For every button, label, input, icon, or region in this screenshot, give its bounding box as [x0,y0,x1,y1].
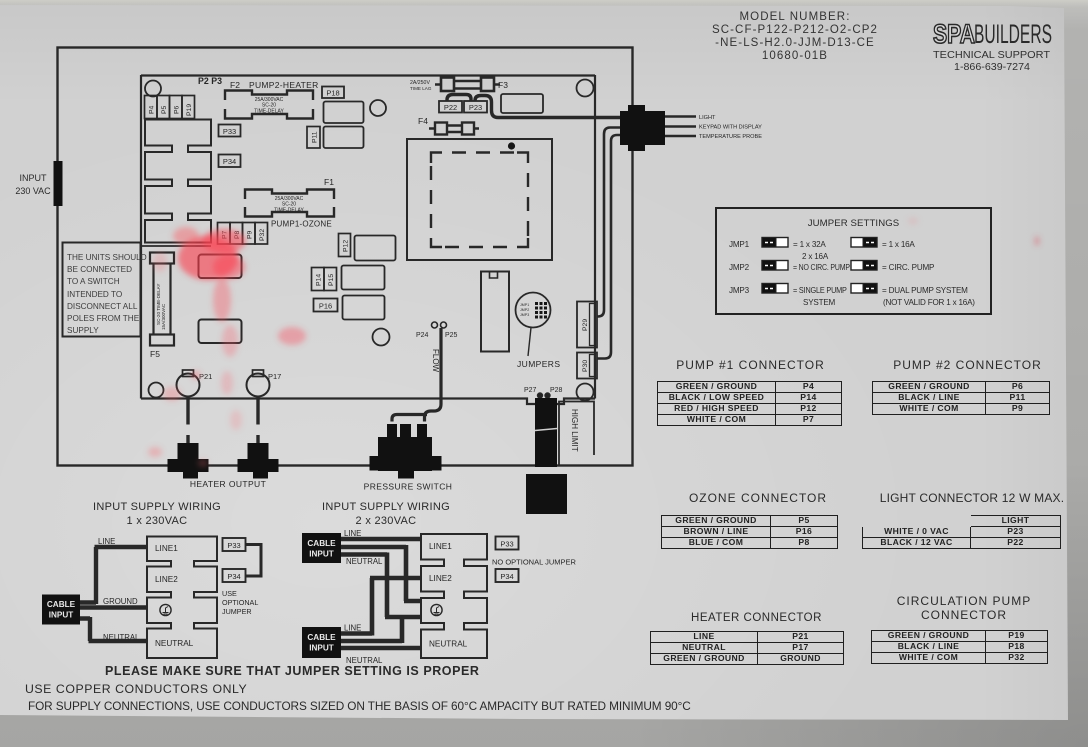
svg-text:P22: P22 [444,103,457,112]
wire top line [341,537,421,542]
JMP2 icon left-set [762,261,788,271]
relay ladder terminal block [145,120,211,243]
svg-text:LIGHT: LIGHT [699,115,716,121]
svg-text:TIME LAG: TIME LAG [410,86,432,91]
warning note text [67,252,147,337]
connector P23 [464,101,487,113]
svg-text:BUILDERS: BUILDERS [974,19,1052,49]
connector P34 opt [223,569,246,582]
component box A [324,102,364,124]
fuse F4 [429,123,479,135]
svg-text:JUMPER: JUMPER [222,607,252,616]
svg-text:NEUTRAL: NEUTRAL [103,633,140,642]
svg-text:FLOW: FLOW [431,349,440,373]
svg-text:P34: P34 [223,157,236,166]
wiring diagram titles [77,501,237,528]
JMP3 icon left-set [762,284,788,294]
svg-text:LINE1: LINE1 [155,544,178,553]
component box B [324,127,364,149]
svg-text:F5: F5 [150,349,160,359]
svg-text:JMP3: JMP3 [520,313,529,317]
svg-text:P18: P18 [326,89,339,98]
svg-text:P33: P33 [500,540,513,549]
svg-text:P34: P34 [227,572,240,581]
svg-text:USE: USE [222,589,237,598]
connector P18 [322,87,344,99]
svg-text:NO OPTIONAL JUMPER: NO OPTIONAL JUMPER [492,558,576,567]
mounting hole top-right [577,80,594,97]
svg-text:P33: P33 [227,541,240,550]
connector strip P4 P5 P6 P19 [145,96,195,119]
svg-text:F4: F4 [418,116,428,126]
cable input box top [302,533,341,563]
svg-text:P9: P9 [247,230,254,239]
trace over P22 [447,95,471,102]
wire top neutral [341,553,421,618]
trace P23 to keypad block [475,96,640,118]
heater terminal P17 [247,374,270,397]
transformer dashed square [431,153,528,248]
model number block [645,11,945,63]
svg-text:P4: P4 [149,105,156,114]
heater output wire P17 [256,396,259,445]
svg-text:P6: P6 [174,105,181,114]
svg-text:P15: P15 [328,274,335,286]
svg-text:INPUT: INPUT [309,644,334,653]
svg-text:P30: P30 [582,360,589,372]
jumpers leader line [528,328,531,357]
IC chip [481,272,509,352]
flow sensor pins P24 P25 [432,322,438,328]
transformer polarity dot [508,142,515,149]
keypad wire B [597,135,620,359]
svg-text:TEMPERATURE PROBE: TEMPERATURE PROBE [699,134,762,140]
svg-text:P11: P11 [312,131,319,143]
PCB outline [141,75,595,404]
svg-text:PRESSURE SWITCH: PRESSURE SWITCH [364,482,453,492]
svg-text:PUMP2-HEATER: PUMP2-HEATER [249,80,319,90]
mounting hole bottom-left [149,383,164,398]
fuse F3 [435,78,500,92]
svg-text:TIME-DELAY: TIME-DELAY [274,208,304,214]
svg-text:INPUT: INPUT [49,611,74,620]
svg-text:1-866-639-7274: 1-866-639-7274 [954,61,1030,73]
enclosure box [58,48,633,466]
terminal block 1x230 [147,537,217,659]
svg-text:SC-20 TIME-DELAY: SC-20 TIME-DELAY [156,284,161,325]
heater table [650,631,844,665]
svg-text:CABLE: CABLE [307,539,336,548]
svg-text:P12: P12 [343,240,350,252]
fuse F5 [150,253,174,346]
light table [862,515,1061,549]
pressure switch [370,424,442,479]
cable input box 1x230 [42,595,80,625]
svg-text:TECHNICAL SUPPORT: TECHNICAL SUPPORT [933,49,1051,61]
svg-text:P5: P5 [161,105,168,114]
connector P30 [577,353,597,379]
svg-text:LINE2: LINE2 [155,575,178,584]
svg-text:P24: P24 [416,332,429,339]
connector P29 [577,302,597,348]
svg-text:TIME-DELAY: TIME-DELAY [254,109,284,115]
connector strip P7 P8 P9 P32 [218,223,268,245]
connector P14 P15 [312,268,325,291]
keypad cable lines [665,117,696,137]
optional jumper loop [246,545,262,577]
svg-text:SPA: SPA [933,19,975,49]
fuse F2 [225,91,313,119]
transformer box [407,139,552,260]
keypad block [620,105,665,151]
svg-text:P16: P16 [319,302,332,311]
connector P16 [314,299,338,312]
svg-text:P23: P23 [469,103,482,112]
component box D [342,266,385,290]
wire neutral 1x230 [80,617,147,641]
svg-text:P2 P3: P2 P3 [198,76,222,86]
wire ground 1x230 [80,605,147,609]
mounting hole top-left [145,81,161,97]
svg-text:INPUT: INPUT [309,550,334,559]
svg-text:GROUND: GROUND [103,597,138,606]
svg-text:P25: P25 [445,332,458,339]
input supply label [14,172,52,198]
wire bottom mid [341,616,402,643]
svg-text:NEUTRAL: NEUTRAL [155,639,194,648]
component box F (right of P23) [501,94,543,113]
svg-text:F2: F2 [230,80,240,90]
jumpers circle [516,293,551,328]
svg-text:F3: F3 [498,80,508,90]
JMP1 icon left-set [762,238,788,248]
svg-text:P32: P32 [259,229,266,241]
flow wire 2 [392,415,427,422]
circulation pump table [871,630,1048,664]
svg-text:P27: P27 [524,387,537,394]
svg-text:CABLE: CABLE [307,633,336,642]
svg-text:LINE: LINE [98,537,115,546]
svg-text:OPTIONAL: OPTIONAL [222,598,258,607]
connector P33 no-opt [496,537,519,550]
heater output wire P21 [186,396,189,445]
terminal block 2x230 [421,534,487,658]
relay K2 [199,320,242,344]
svg-text:LINE: LINE [344,529,361,538]
connector P33 opt [223,538,246,551]
pump2 table [872,381,1050,415]
hole near P18 [370,100,386,116]
ground symbol 1x230 [160,604,171,615]
svg-text:LINE2: LINE2 [429,574,452,583]
svg-text:KEYPAD WITH DISPLAY: KEYPAD WITH DISPLAY [699,125,762,131]
keypad wire A [597,128,620,317]
hole center [373,329,390,346]
relay K1 [199,255,242,279]
svg-text:LINE1: LINE1 [429,542,452,551]
high limit connector pins P27 P28 [537,393,542,398]
ozone table [661,515,838,549]
wire top mid [341,545,421,601]
svg-text:CABLE: CABLE [47,600,76,609]
svg-text:P34: P34 [500,572,513,581]
red marker scribbles [148,218,1040,467]
input terminal bar [54,161,63,206]
bottom notes [105,664,479,678]
svg-text:JMP1: JMP1 [520,303,529,307]
connector P34 no-opt [496,569,519,582]
wire bottom neutral [341,646,421,651]
svg-text:NEUTRAL: NEUTRAL [346,557,383,566]
cable input box bottom [302,627,341,658]
fuse F1 [245,190,334,217]
line under ladder [141,245,211,247]
jumper settings box [715,207,992,315]
ground symbol 2x230 [431,604,442,615]
svg-text:P17: P17 [268,372,281,381]
warning note box [63,243,141,337]
svg-text:P29: P29 [582,319,589,331]
svg-text:15A/300VAC: 15A/300VAC [161,303,166,330]
component box C [355,236,396,261]
svg-text:P33: P33 [223,127,236,136]
high limit sensor bulb [526,474,567,514]
svg-text:JUMPERS: JUMPERS [517,359,560,369]
svg-text:P21: P21 [199,372,212,381]
wire bottom line [341,578,421,636]
svg-text:P19: P19 [186,104,193,116]
table titles [657,358,844,372]
connector P34 [219,155,241,168]
high limit label box [559,402,594,467]
svg-text:LINE: LINE [344,624,361,633]
connector P11 [307,127,320,149]
high limit cable [535,398,557,467]
heater terminal P21 [177,374,200,397]
svg-text:HEATER OUTPUT: HEATER OUTPUT [190,479,266,489]
pump1 table [657,381,842,426]
svg-text:JMP2: JMP2 [520,308,529,312]
svg-text:NEUTRAL: NEUTRAL [429,640,468,649]
JMP3 icon right-set [851,284,877,294]
wire line 1x230 [80,547,147,604]
JMP2 icon right-set [851,261,877,271]
svg-text:F1: F1 [324,177,334,187]
connector P33 [219,125,241,137]
mounting hole bottom-right [577,384,594,401]
svg-text:PUMP1-OZONE: PUMP1-OZONE [271,220,332,229]
connector P12 [339,234,351,257]
JMP1 icon right-set [851,238,877,248]
flow wire [425,328,442,422]
svg-text:P28: P28 [550,387,563,394]
svg-text:HIGH LIMIT: HIGH LIMIT [570,409,579,452]
spa builders logo [920,14,1080,74]
connector P22 [439,101,462,113]
component box E [343,296,385,320]
jumper icons [715,207,988,311]
svg-text:P14: P14 [316,274,323,286]
jumper pin grid [535,302,547,319]
